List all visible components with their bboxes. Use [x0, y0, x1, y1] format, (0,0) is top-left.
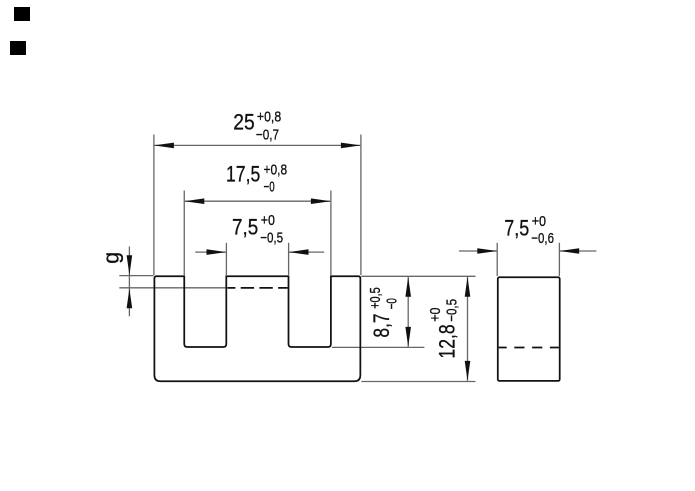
svg-text:−0,7: −0,7	[256, 127, 279, 144]
svg-text:25: 25	[233, 110, 255, 135]
svg-text:−0,5: −0,5	[260, 230, 283, 247]
svg-text:+0: +0	[532, 213, 546, 230]
svg-text:+0: +0	[427, 308, 444, 322]
svg-text:+0,8: +0,8	[257, 109, 281, 126]
svg-text:7,5: 7,5	[232, 215, 258, 240]
svg-text:g: g	[98, 252, 123, 264]
svg-text:8,7: 8,7	[369, 313, 394, 337]
svg-text:−0: −0	[264, 179, 275, 196]
svg-text:12,8: 12,8	[434, 324, 459, 358]
svg-text:+0,5: +0,5	[367, 287, 384, 309]
svg-text:7,5: 7,5	[504, 216, 529, 241]
svg-text:−0: −0	[384, 298, 401, 309]
svg-text:+0: +0	[261, 212, 275, 229]
svg-text:17,5: 17,5	[226, 162, 260, 187]
svg-text:−0,6: −0,6	[531, 230, 554, 247]
svg-text:−0,5: −0,5	[443, 299, 460, 322]
svg-text:+0,8: +0,8	[264, 162, 288, 179]
